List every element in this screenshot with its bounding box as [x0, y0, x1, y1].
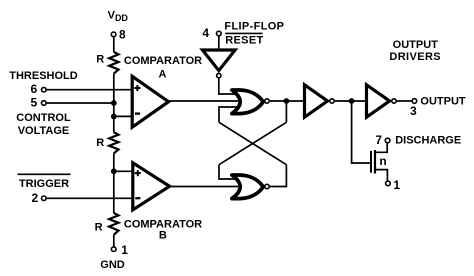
svg-text:1: 1 [121, 243, 128, 257]
svg-text:CONTROL: CONTROL [16, 112, 71, 124]
label TRIGGER overline [18, 173, 71, 175]
wire comparator A output to NOR1 [169, 100, 238, 102]
pin 1 circle (GND) [111, 247, 116, 252]
wire NOR1 output down (cross start) [285, 101, 287, 122]
pin 1 circle (discharge source) [386, 181, 391, 186]
svg-text:OUTPUT: OUTPUT [420, 95, 466, 107]
NOR2 output bubble [265, 184, 269, 188]
wire pin5 to divider [47, 102, 114, 104]
wire NOR2 output up (cross) [270, 165, 287, 187]
inverter U5 (output driver 2) [367, 85, 390, 117]
svg-text:B: B [159, 230, 167, 242]
svg-text:VOLTAGE: VOLTAGE [18, 125, 70, 137]
NOR gate 1 (flip-flop top) [232, 90, 263, 114]
cross diagonal NOR1->NOR2 [219, 122, 286, 164]
svg-text:R: R [96, 137, 104, 149]
comparator A minus sign [135, 112, 140, 114]
svg-text:5: 5 [31, 95, 38, 109]
comparator A (op-amp triangle) [132, 76, 168, 127]
svg-text:6: 6 [31, 82, 38, 96]
junction dot discharge tap [349, 98, 355, 104]
svg-text:1: 1 [393, 178, 400, 192]
resistor R1 [109, 52, 118, 74]
wire pin2 to comparator B minus [47, 197, 134, 199]
pin 4 circle [217, 31, 222, 36]
wire divider to comparator A minus [114, 115, 133, 117]
resistor R2 [109, 132, 118, 153]
junction dot compA minus/divider [111, 114, 117, 120]
svg-text:COMPARATOR: COMPARATOR [124, 55, 202, 67]
svg-text:8: 8 [119, 27, 126, 41]
wire pin6 to comparator A plus [47, 89, 133, 91]
wire VDD to R1 [113, 37, 115, 53]
pin 3 circle (OUTPUT) [412, 99, 417, 104]
wire discharge tap down to transistor gate [352, 101, 372, 163]
resistor R3 [109, 213, 118, 235]
wire pin4 to reset inverter [218, 36, 220, 49]
comparator B plus sign [135, 170, 141, 176]
transistor Q1 gate bar [370, 151, 372, 173]
svg-text:FLIP-FLOP: FLIP-FLOP [224, 20, 284, 32]
NOR1 feedback input wire (from cross) [219, 107, 238, 122]
junction dot compB plus/divider [111, 168, 117, 174]
svg-text:3: 3 [410, 104, 417, 118]
inverter U4 bubble [330, 99, 334, 103]
transistor Q1 channel bar [374, 150, 376, 174]
svg-text:7: 7 [375, 133, 382, 147]
transistor Q1 drain stub [375, 143, 387, 152]
transistor Q1 source stub [375, 170, 387, 181]
svg-text:DISCHARGE: DISCHARGE [395, 135, 461, 147]
inverter U5 bubble [392, 99, 396, 103]
wire R3 to GND pin [113, 235, 115, 247]
comparator B (op-amp triangle) [133, 163, 170, 210]
wire comparator B output to NOR2 [169, 186, 238, 188]
svg-text:n: n [379, 154, 386, 168]
cross diagonal NOR2->NOR1 [219, 122, 286, 164]
wire reset inverter to NOR1 top input [219, 78, 238, 94]
pin 8 circle [111, 32, 116, 37]
wire R2 to R3 (divider) [113, 153, 115, 213]
pin 6 circle [42, 87, 47, 92]
svg-text:DRIVERS: DRIVERS [389, 51, 441, 63]
pin 7 circle (DISCHARGE) [385, 138, 390, 143]
pin 5 circle [42, 101, 47, 106]
svg-text:R: R [95, 221, 103, 233]
svg-text:RESET: RESET [225, 35, 263, 47]
NOR gate 2 (flip-flop bottom) [232, 175, 263, 199]
junction dot pin5/divider [111, 100, 117, 106]
svg-text:2: 2 [32, 191, 39, 205]
svg-text:OUTPUT: OUTPUT [393, 39, 439, 51]
wire inverter2 to output pin [397, 100, 412, 102]
wire R1 to R2 (divider) [113, 74, 115, 133]
svg-text:R: R [96, 54, 104, 66]
wire divider to comparator B plus [114, 170, 134, 172]
wire NOR1 output to inverter 1 [270, 100, 304, 102]
label RESET overline [225, 32, 262, 34]
NOR1 output bubble [265, 99, 269, 103]
pin 2 circle [42, 196, 47, 201]
svg-text:TRIGGER: TRIGGER [19, 178, 69, 190]
junction dot NOR1 output [284, 98, 290, 104]
NOR2 feedback input wire [219, 165, 238, 179]
svg-text:4: 4 [202, 26, 209, 40]
inverter U4 (output driver 1) [305, 85, 328, 117]
reset inverter U3 (down-pointing) [203, 50, 236, 71]
comparator B minus sign [135, 197, 140, 199]
svg-text:A: A [159, 68, 167, 80]
wire inverter1 to inverter2 [335, 100, 367, 102]
svg-text:GND: GND [100, 259, 125, 271]
reset inverter bubble [217, 73, 221, 77]
svg-text:THRESHOLD: THRESHOLD [9, 70, 78, 82]
comparator A plus sign [134, 85, 140, 91]
